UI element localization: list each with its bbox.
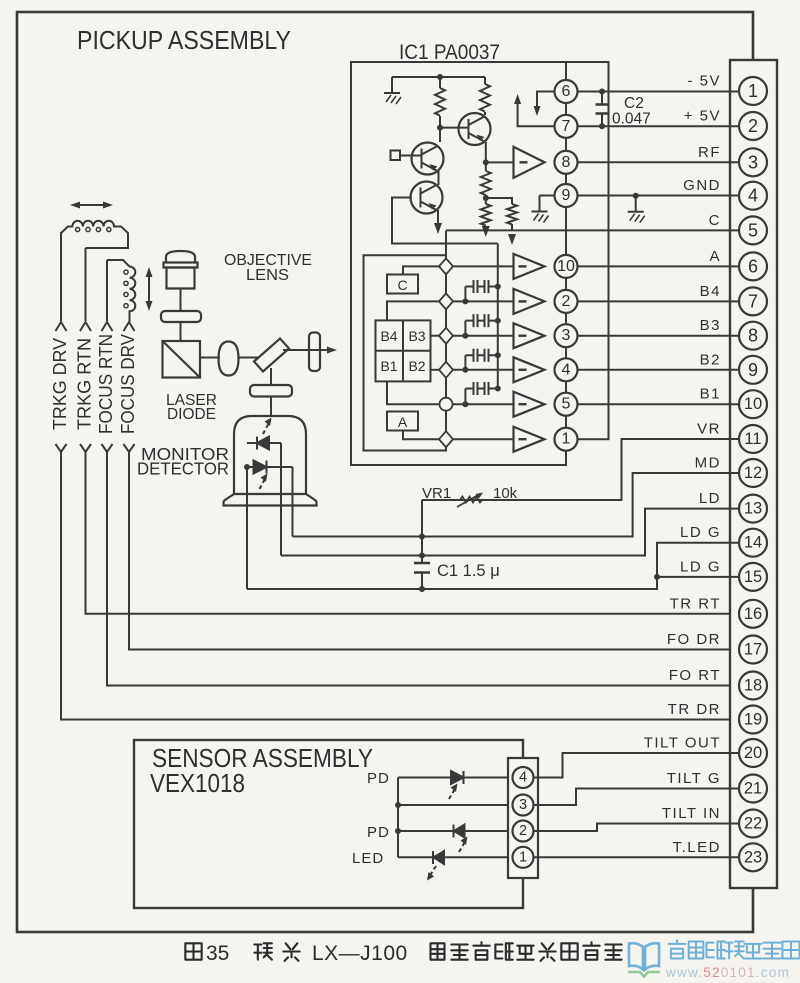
svg-text:B4: B4	[380, 328, 397, 344]
collimator lens plate	[161, 311, 201, 322]
label MONITOR DETECTOR	[137, 444, 229, 479]
wire VR pin11	[422, 439, 740, 500]
ground G2 (pin 9)	[532, 196, 549, 223]
connector pin 15	[739, 563, 767, 591]
svg-text:GND: GND	[683, 177, 721, 194]
ground G3 (GND pin 4)	[628, 196, 645, 223]
wire IC 2 to connector	[578, 300, 740, 302]
wire B1 to node5	[387, 381, 440, 404]
svg-text:A: A	[709, 248, 721, 265]
wire Q1 emitter down	[485, 142, 487, 162]
svg-text:TILT IN: TILT IN	[662, 805, 721, 822]
connector pin 5	[739, 216, 767, 244]
op-amp RF	[514, 147, 545, 178]
svg-text:TR RT: TR RT	[670, 595, 721, 612]
resistor R4 with arrow	[481, 198, 491, 237]
svg-text:B3: B3	[700, 317, 721, 334]
svg-text:2: 2	[519, 823, 527, 839]
svg-text:IC1 PA0037: IC1 PA0037	[399, 41, 500, 64]
IC pin circle 7	[555, 115, 578, 138]
svg-text:2: 2	[748, 116, 758, 136]
wire pad to Q2 base	[400, 155, 422, 157]
wire FOCUS RTN upper	[106, 260, 108, 321]
element box C	[387, 275, 418, 294]
svg-text:www.520101.com: www.520101.com	[665, 964, 790, 980]
svg-text:VR: VR	[697, 421, 721, 438]
beam wire prism to lens	[200, 357, 220, 359]
op-amp row 3	[514, 323, 545, 348]
svg-text:13: 13	[744, 500, 762, 518]
wire IC 8 to connector	[578, 161, 740, 163]
sensor pin 2	[513, 821, 534, 842]
focus direction arrow	[146, 267, 153, 311]
capacitor pair row 4	[465, 382, 497, 404]
svg-text:11: 11	[744, 430, 761, 448]
break chevron top of FOCUS DRV	[124, 322, 135, 331]
resistor R5 with arrow	[486, 198, 517, 245]
wire pin7 stub with up arrow	[514, 94, 555, 126]
svg-text:15: 15	[744, 568, 762, 586]
svg-text:9: 9	[748, 360, 758, 380]
wire lens to collimator	[180, 289, 182, 311]
IC pin circle 5	[555, 393, 578, 416]
svg-text:LD G: LD G	[680, 558, 721, 575]
svg-text:C: C	[709, 212, 721, 229]
wire LD G pin14	[247, 543, 740, 589]
sensor pin 4	[513, 767, 534, 788]
label C2 0.047	[612, 95, 651, 128]
connector strip box	[730, 60, 777, 888]
svg-text:10: 10	[557, 258, 575, 275]
svg-text:C2: C2	[624, 95, 644, 112]
connector pin 13	[739, 495, 767, 523]
op-amp row 4	[514, 357, 545, 382]
svg-text:PD: PD	[367, 770, 390, 787]
label LASER DIODE	[166, 392, 217, 423]
svg-text:DIODE: DIODE	[167, 406, 216, 423]
wire node to amp row 4	[453, 369, 514, 371]
caption figure 35	[185, 942, 621, 965]
tracking coil L1	[61, 221, 128, 248]
svg-text:PICKUP ASSEMBLY: PICKUP ASSEMBLY	[77, 25, 291, 55]
svg-text:TILT OUT: TILT OUT	[644, 735, 721, 752]
svg-text:16: 16	[744, 605, 762, 623]
connector pin 17	[739, 636, 767, 664]
input pad square	[391, 151, 401, 161]
feedback bus	[497, 244, 499, 389]
svg-text:0.047: 0.047	[612, 111, 651, 128]
connector pin 14	[739, 529, 767, 557]
svg-text:DETECTOR: DETECTOR	[137, 459, 229, 479]
objective lens	[164, 251, 198, 289]
svg-text:4: 4	[562, 361, 571, 378]
label VR1 10k	[422, 485, 518, 502]
wire IC 10 to connector	[578, 265, 740, 267]
wire Q3 base feedback	[392, 198, 498, 244]
svg-text:10: 10	[744, 395, 762, 413]
op-amp row 10	[514, 254, 545, 279]
junction base node	[437, 125, 443, 131]
wire IC 6 to connector	[578, 91, 740, 93]
svg-text:TR DR: TR DR	[668, 701, 721, 718]
tracking direction arrow	[70, 202, 113, 209]
node 2	[439, 293, 453, 309]
break chevron bottom of TRKG DRV	[56, 444, 67, 452]
wire photodiode to MD line	[292, 467, 294, 537]
junction R3/R4	[483, 195, 489, 201]
wire IC 9 to connector	[578, 195, 740, 197]
svg-text:FO DR: FO DR	[667, 631, 721, 648]
photodiode array box	[364, 231, 447, 451]
capacitor C1	[414, 500, 430, 589]
sensor pin 1	[513, 847, 534, 868]
svg-text:3: 3	[519, 797, 527, 813]
wire row 3	[398, 804, 512, 806]
connector pin 12	[739, 459, 767, 487]
wire Q1 collector to R2	[484, 113, 486, 115]
svg-text:LD: LD	[699, 490, 721, 507]
connector pin 8	[739, 322, 767, 350]
beam wire lens to mirror	[239, 357, 260, 359]
svg-text:PD: PD	[367, 824, 390, 841]
label SENSOR ASSEMBLY / VEX1018	[150, 743, 373, 798]
wire TRKG RTN to connector	[86, 452, 740, 614]
svg-text:21: 21	[744, 780, 762, 798]
connector pin 11	[739, 425, 767, 453]
IC pin circle 6	[555, 80, 578, 103]
wire A box to node1	[403, 431, 439, 440]
svg-text:TRKG RTN: TRKG RTN	[75, 338, 95, 430]
wire C pin5	[446, 229, 740, 231]
wire IC 5 to connector	[578, 403, 740, 405]
element boxes B4 B3 B1 B2	[376, 320, 431, 381]
svg-text:10k: 10k	[493, 485, 518, 502]
svg-text:7: 7	[562, 118, 571, 135]
wire TRKG DRV to connector	[61, 452, 739, 720]
wire sensor3 to TILT G	[534, 789, 740, 806]
wire node to amp row 10	[453, 265, 514, 267]
svg-text:A: A	[398, 414, 408, 430]
capacitor pair row 3	[465, 349, 497, 370]
label OBJECTIVE LENS	[224, 252, 312, 284]
wire detector to LD G line	[246, 467, 248, 589]
svg-text:LED: LED	[352, 850, 384, 867]
svg-text:- 5V: - 5V	[687, 73, 721, 90]
break chevron top of FOCUS RTN	[102, 322, 113, 331]
connector pin 7	[739, 287, 767, 315]
watermark book icon	[628, 943, 660, 976]
svg-text:MD: MD	[695, 455, 721, 472]
potentiometer VR1	[457, 493, 483, 508]
svg-text:C: C	[397, 277, 407, 293]
svg-text:6: 6	[748, 256, 758, 276]
svg-text:4: 4	[519, 770, 527, 786]
svg-text:22: 22	[744, 815, 762, 833]
wire LD pin13	[281, 509, 740, 556]
svg-text:6: 6	[562, 83, 571, 100]
connector pin 4	[739, 182, 767, 210]
svg-text:B2: B2	[408, 358, 425, 374]
wire pin chain verticals	[565, 62, 567, 428]
connector pin 23	[739, 843, 767, 871]
svg-text:C1 1.5 μ: C1 1.5 μ	[437, 562, 500, 580]
svg-text:FO RT: FO RT	[669, 667, 721, 684]
svg-text:18: 18	[744, 677, 762, 695]
wire MD pin12	[293, 473, 740, 537]
node 5	[440, 398, 453, 411]
connector pin 10	[739, 390, 767, 418]
break chevron bottom of TRKG RTN	[80, 444, 91, 452]
svg-text:1: 1	[562, 431, 571, 448]
capacitor C2	[596, 92, 609, 127]
svg-text:5: 5	[562, 396, 571, 413]
op-amp row 1	[514, 427, 545, 452]
wire B3 to node3	[431, 335, 440, 337]
svg-text:23: 23	[744, 848, 762, 866]
svg-text:B2: B2	[700, 351, 721, 368]
svg-text:FOCUS DRV: FOCUS DRV	[118, 334, 138, 434]
connector pin 22	[739, 810, 767, 838]
wire pin6 stub with down arrow	[534, 92, 556, 117]
svg-text:3: 3	[562, 327, 571, 344]
wire IC 7 to connector	[578, 125, 740, 127]
connector pin 19	[739, 706, 767, 734]
node 4	[439, 362, 453, 378]
break chevron top of TRKG RTN	[80, 322, 91, 331]
wire node to amp row 2	[453, 300, 514, 302]
svg-text:35: 35	[206, 942, 229, 965]
sensor connector box	[508, 758, 538, 878]
IC pin circle 2	[555, 290, 578, 313]
resistor R1	[435, 77, 445, 121]
svg-text:2: 2	[562, 293, 571, 310]
sensor assembly box	[134, 740, 523, 908]
svg-text:1: 1	[748, 81, 758, 101]
junction top rail	[437, 74, 443, 80]
svg-text:5: 5	[748, 220, 758, 240]
wire C box to node 10	[403, 266, 439, 274]
svg-text:LD G: LD G	[680, 524, 721, 541]
svg-text:VR1: VR1	[422, 485, 451, 502]
svg-text:7: 7	[748, 291, 758, 311]
transistor Q3	[411, 182, 443, 214]
svg-text:9: 9	[562, 187, 571, 204]
wire node to amp row 5	[453, 403, 514, 405]
wire node to amp row 3	[453, 335, 514, 337]
svg-text:B1: B1	[380, 358, 397, 374]
capacitor pair row 2	[465, 314, 497, 336]
sensor wire bus	[397, 778, 399, 858]
IC1 outline box	[351, 62, 609, 465]
connector pin 16	[739, 600, 767, 628]
junction RF input	[483, 159, 489, 165]
wire LD G pin15	[657, 576, 740, 578]
op-amp row 2	[514, 289, 545, 314]
ground G1 (IC top-left)	[384, 77, 401, 104]
wire FOCUS DRV to connector	[129, 452, 739, 650]
svg-text:3: 3	[748, 152, 758, 172]
svg-text:VEX1018: VEX1018	[150, 768, 245, 798]
beam splitter prism / laser diode	[163, 341, 201, 378]
IC pin circle 1	[555, 428, 578, 451]
focus coil L2	[107, 260, 135, 322]
relay lens (ellipse)	[219, 342, 239, 376]
wire laser anode to LD line	[280, 443, 282, 556]
svg-text:RF: RF	[698, 144, 721, 161]
IC pin circle 8	[555, 151, 578, 174]
resistor R3	[481, 162, 491, 198]
wire B2 to node4	[431, 369, 440, 371]
svg-text:LX—J100: LX—J100	[312, 942, 408, 965]
wire TRKG DRV upper	[60, 232, 62, 321]
photodiode PD1	[398, 771, 512, 799]
svg-text:FOCUS RTN: FOCUS RTN	[96, 334, 116, 434]
connector pin 1	[739, 77, 767, 105]
node 3	[439, 328, 453, 344]
wire top rail	[392, 76, 485, 78]
svg-text:8: 8	[748, 326, 758, 346]
break chevron top of TRKG DRV	[56, 322, 67, 331]
svg-text:14: 14	[744, 534, 762, 552]
connector pin 2	[739, 112, 767, 140]
watermark site name	[668, 940, 799, 958]
wire sensor4 to TILT OUT	[534, 753, 740, 778]
connector pin 21	[739, 775, 767, 803]
svg-text:1: 1	[519, 849, 527, 865]
sensor connector stub top	[522, 740, 524, 758]
monitor photodiode inside detector	[247, 461, 293, 490]
IC pin circle 9	[555, 184, 578, 207]
svg-text:LENS: LENS	[246, 267, 289, 284]
laser diode inside detector	[247, 418, 281, 450]
wire base node to Q1 base	[440, 121, 469, 142]
IC pin circle 3	[555, 324, 578, 347]
wire Q2 emitter to Q3 collector	[438, 171, 440, 185]
svg-text:17: 17	[744, 641, 762, 659]
wire node to amp row 1	[453, 438, 514, 440]
svg-text:B1: B1	[700, 386, 721, 403]
wire lens to detector	[270, 397, 272, 417]
connector pin 9	[739, 356, 767, 384]
svg-text:B3: B3	[408, 328, 425, 344]
element box A	[387, 412, 418, 431]
LED D3	[398, 851, 512, 881]
break chevron bottom of FOCUS RTN	[102, 444, 113, 452]
transistor Q1	[459, 113, 491, 145]
tilted mirror	[254, 339, 289, 372]
sensor connector stub bottom	[522, 878, 524, 908]
svg-text:12: 12	[744, 464, 762, 482]
node 10	[439, 258, 453, 274]
connector pin 18	[739, 672, 767, 700]
resistor R2	[480, 77, 490, 113]
wire IC 4 to connector	[578, 369, 740, 371]
IC pin circle 4	[555, 358, 578, 381]
capacitor pair row 1	[465, 280, 497, 301]
beam wire to right with arrow	[283, 347, 337, 354]
sensor pin 3	[513, 795, 534, 816]
node 1	[439, 431, 453, 447]
IC pin circle 10	[555, 255, 578, 278]
junction GND	[633, 193, 639, 199]
svg-text:T.LED: T.LED	[673, 839, 721, 856]
monitor detector can	[224, 416, 317, 506]
svg-text:+ 5V: + 5V	[684, 108, 721, 125]
svg-text:B4: B4	[700, 283, 721, 300]
wire IC 3 to connector	[578, 335, 740, 337]
svg-text:8: 8	[562, 154, 571, 171]
wire node2 to B4	[387, 301, 439, 320]
wire collimator to prism	[180, 322, 182, 341]
photodiode PD2	[398, 825, 512, 853]
wire sensor2 to TILT IN	[534, 824, 740, 832]
ground stub for pin 9	[540, 195, 556, 197]
transistor Q2	[412, 143, 444, 175]
svg-text:4: 4	[748, 186, 758, 206]
Q3 emitter arrow	[434, 210, 442, 234]
break chevron bottom of FOCUS DRV	[124, 444, 135, 452]
connector pin 3	[739, 148, 767, 176]
connector pin 20	[739, 739, 767, 767]
connector pin 6	[739, 252, 767, 280]
wire TRKG RTN upper	[85, 248, 87, 321]
label C1 1.5u	[437, 562, 500, 580]
junction detector common	[244, 464, 250, 470]
monitor lens plate	[250, 385, 292, 397]
svg-text:19: 19	[744, 711, 762, 729]
op-amp row 5	[514, 392, 545, 417]
grating plate	[309, 333, 320, 372]
svg-text:TRKG DRV: TRKG DRV	[50, 338, 70, 430]
wire to RF amp	[486, 161, 514, 163]
wire sensor1 to T.LED	[534, 856, 740, 858]
wire FOCUS RTN to connector	[107, 452, 739, 686]
svg-text:TILT G: TILT G	[667, 770, 721, 787]
svg-text:20: 20	[744, 744, 762, 762]
wire mirror down to lens	[270, 368, 272, 385]
